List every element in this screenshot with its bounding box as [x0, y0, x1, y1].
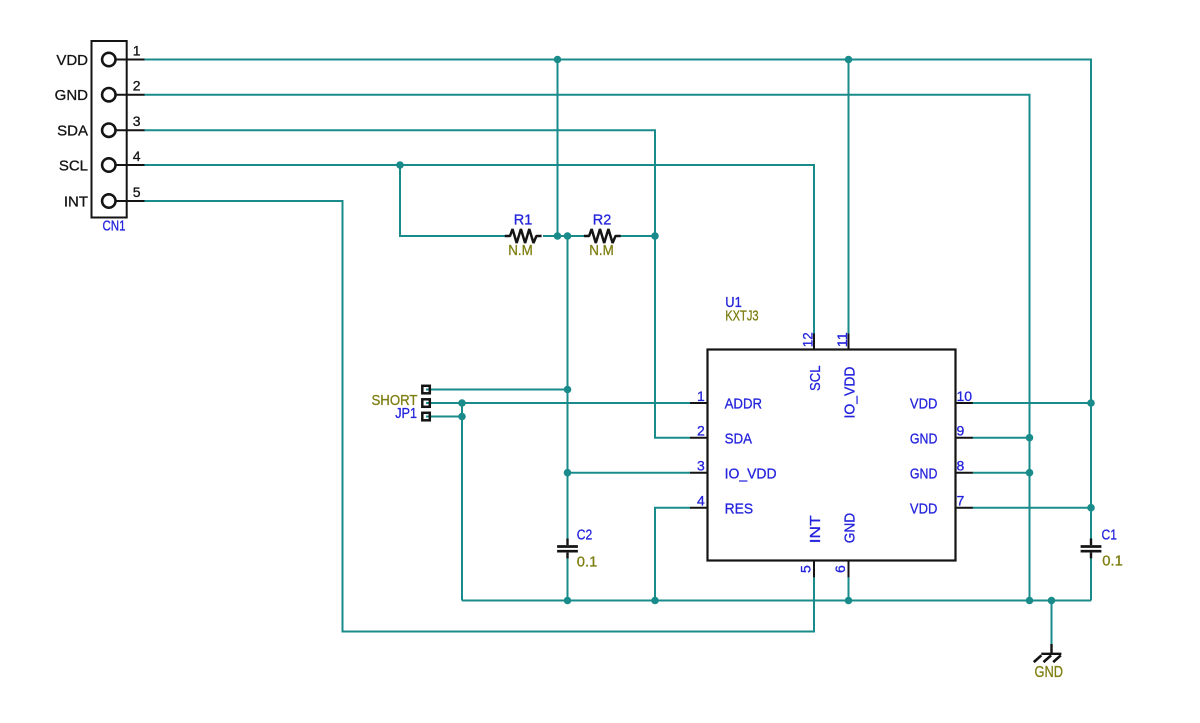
svg-text:2: 2	[133, 78, 141, 94]
svg-text:9: 9	[957, 423, 965, 439]
svg-text:KXTJ3: KXTJ3	[725, 308, 758, 324]
svg-text:10: 10	[957, 388, 973, 404]
svg-text:SDA: SDA	[725, 430, 753, 447]
svg-text:SCL: SCL	[59, 157, 88, 174]
svg-text:6: 6	[832, 565, 848, 573]
svg-text:1: 1	[133, 42, 141, 58]
svg-text:VDD: VDD	[910, 396, 938, 413]
svg-text:C1: C1	[1102, 528, 1118, 544]
svg-text:0.1: 0.1	[1102, 554, 1123, 570]
svg-text:IO_VDD: IO_VDD	[725, 465, 777, 482]
svg-text:GND: GND	[910, 465, 938, 482]
svg-text:4: 4	[133, 148, 141, 164]
svg-text:VDD: VDD	[56, 52, 88, 69]
svg-text:SCL: SCL	[807, 366, 824, 392]
svg-text:2: 2	[697, 423, 705, 439]
svg-text:CN1: CN1	[103, 219, 126, 235]
svg-text:GND: GND	[841, 513, 858, 544]
svg-text:5: 5	[797, 565, 813, 573]
svg-text:R1: R1	[514, 213, 533, 229]
svg-text:C2: C2	[577, 527, 593, 543]
svg-text:11: 11	[834, 332, 850, 347]
svg-text:1: 1	[697, 388, 705, 404]
svg-text:SDA: SDA	[57, 123, 88, 140]
svg-text:ADDR: ADDR	[725, 396, 763, 413]
svg-text:12: 12	[800, 332, 816, 347]
svg-text:3: 3	[133, 113, 141, 129]
svg-text:JP1: JP1	[395, 406, 417, 422]
svg-text:RES: RES	[725, 500, 754, 517]
svg-text:8: 8	[957, 458, 965, 474]
svg-text:IO_VDD: IO_VDD	[841, 366, 858, 418]
svg-text:INT: INT	[64, 193, 88, 210]
svg-text:R2: R2	[593, 213, 612, 229]
svg-text:N.M: N.M	[589, 243, 614, 259]
svg-text:INT: INT	[807, 515, 824, 543]
svg-text:0.1: 0.1	[577, 555, 598, 571]
svg-text:VDD: VDD	[910, 500, 938, 517]
svg-text:5: 5	[133, 184, 141, 200]
svg-text:GND: GND	[55, 87, 89, 104]
svg-text:GND: GND	[1035, 664, 1064, 681]
svg-text:GND: GND	[910, 430, 938, 447]
svg-text:4: 4	[697, 493, 705, 509]
svg-text:7: 7	[957, 493, 965, 509]
svg-text:3: 3	[697, 458, 705, 474]
svg-text:N.M: N.M	[508, 243, 533, 259]
